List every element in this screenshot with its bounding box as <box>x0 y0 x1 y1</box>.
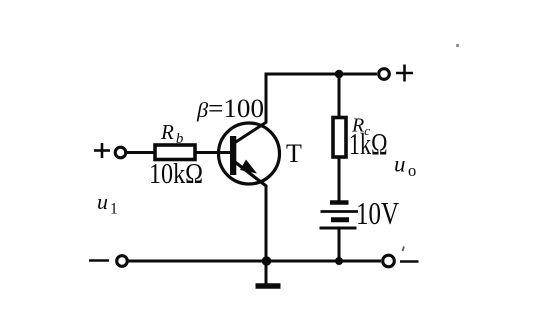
svg-text:β=100: β=100 <box>196 94 264 123</box>
svg-text:1kΩ: 1kΩ <box>349 126 388 161</box>
svg-text:10V: 10V <box>356 195 399 231</box>
svg-text:T: T <box>286 139 302 168</box>
svg-text:10kΩ: 10kΩ <box>149 158 203 190</box>
